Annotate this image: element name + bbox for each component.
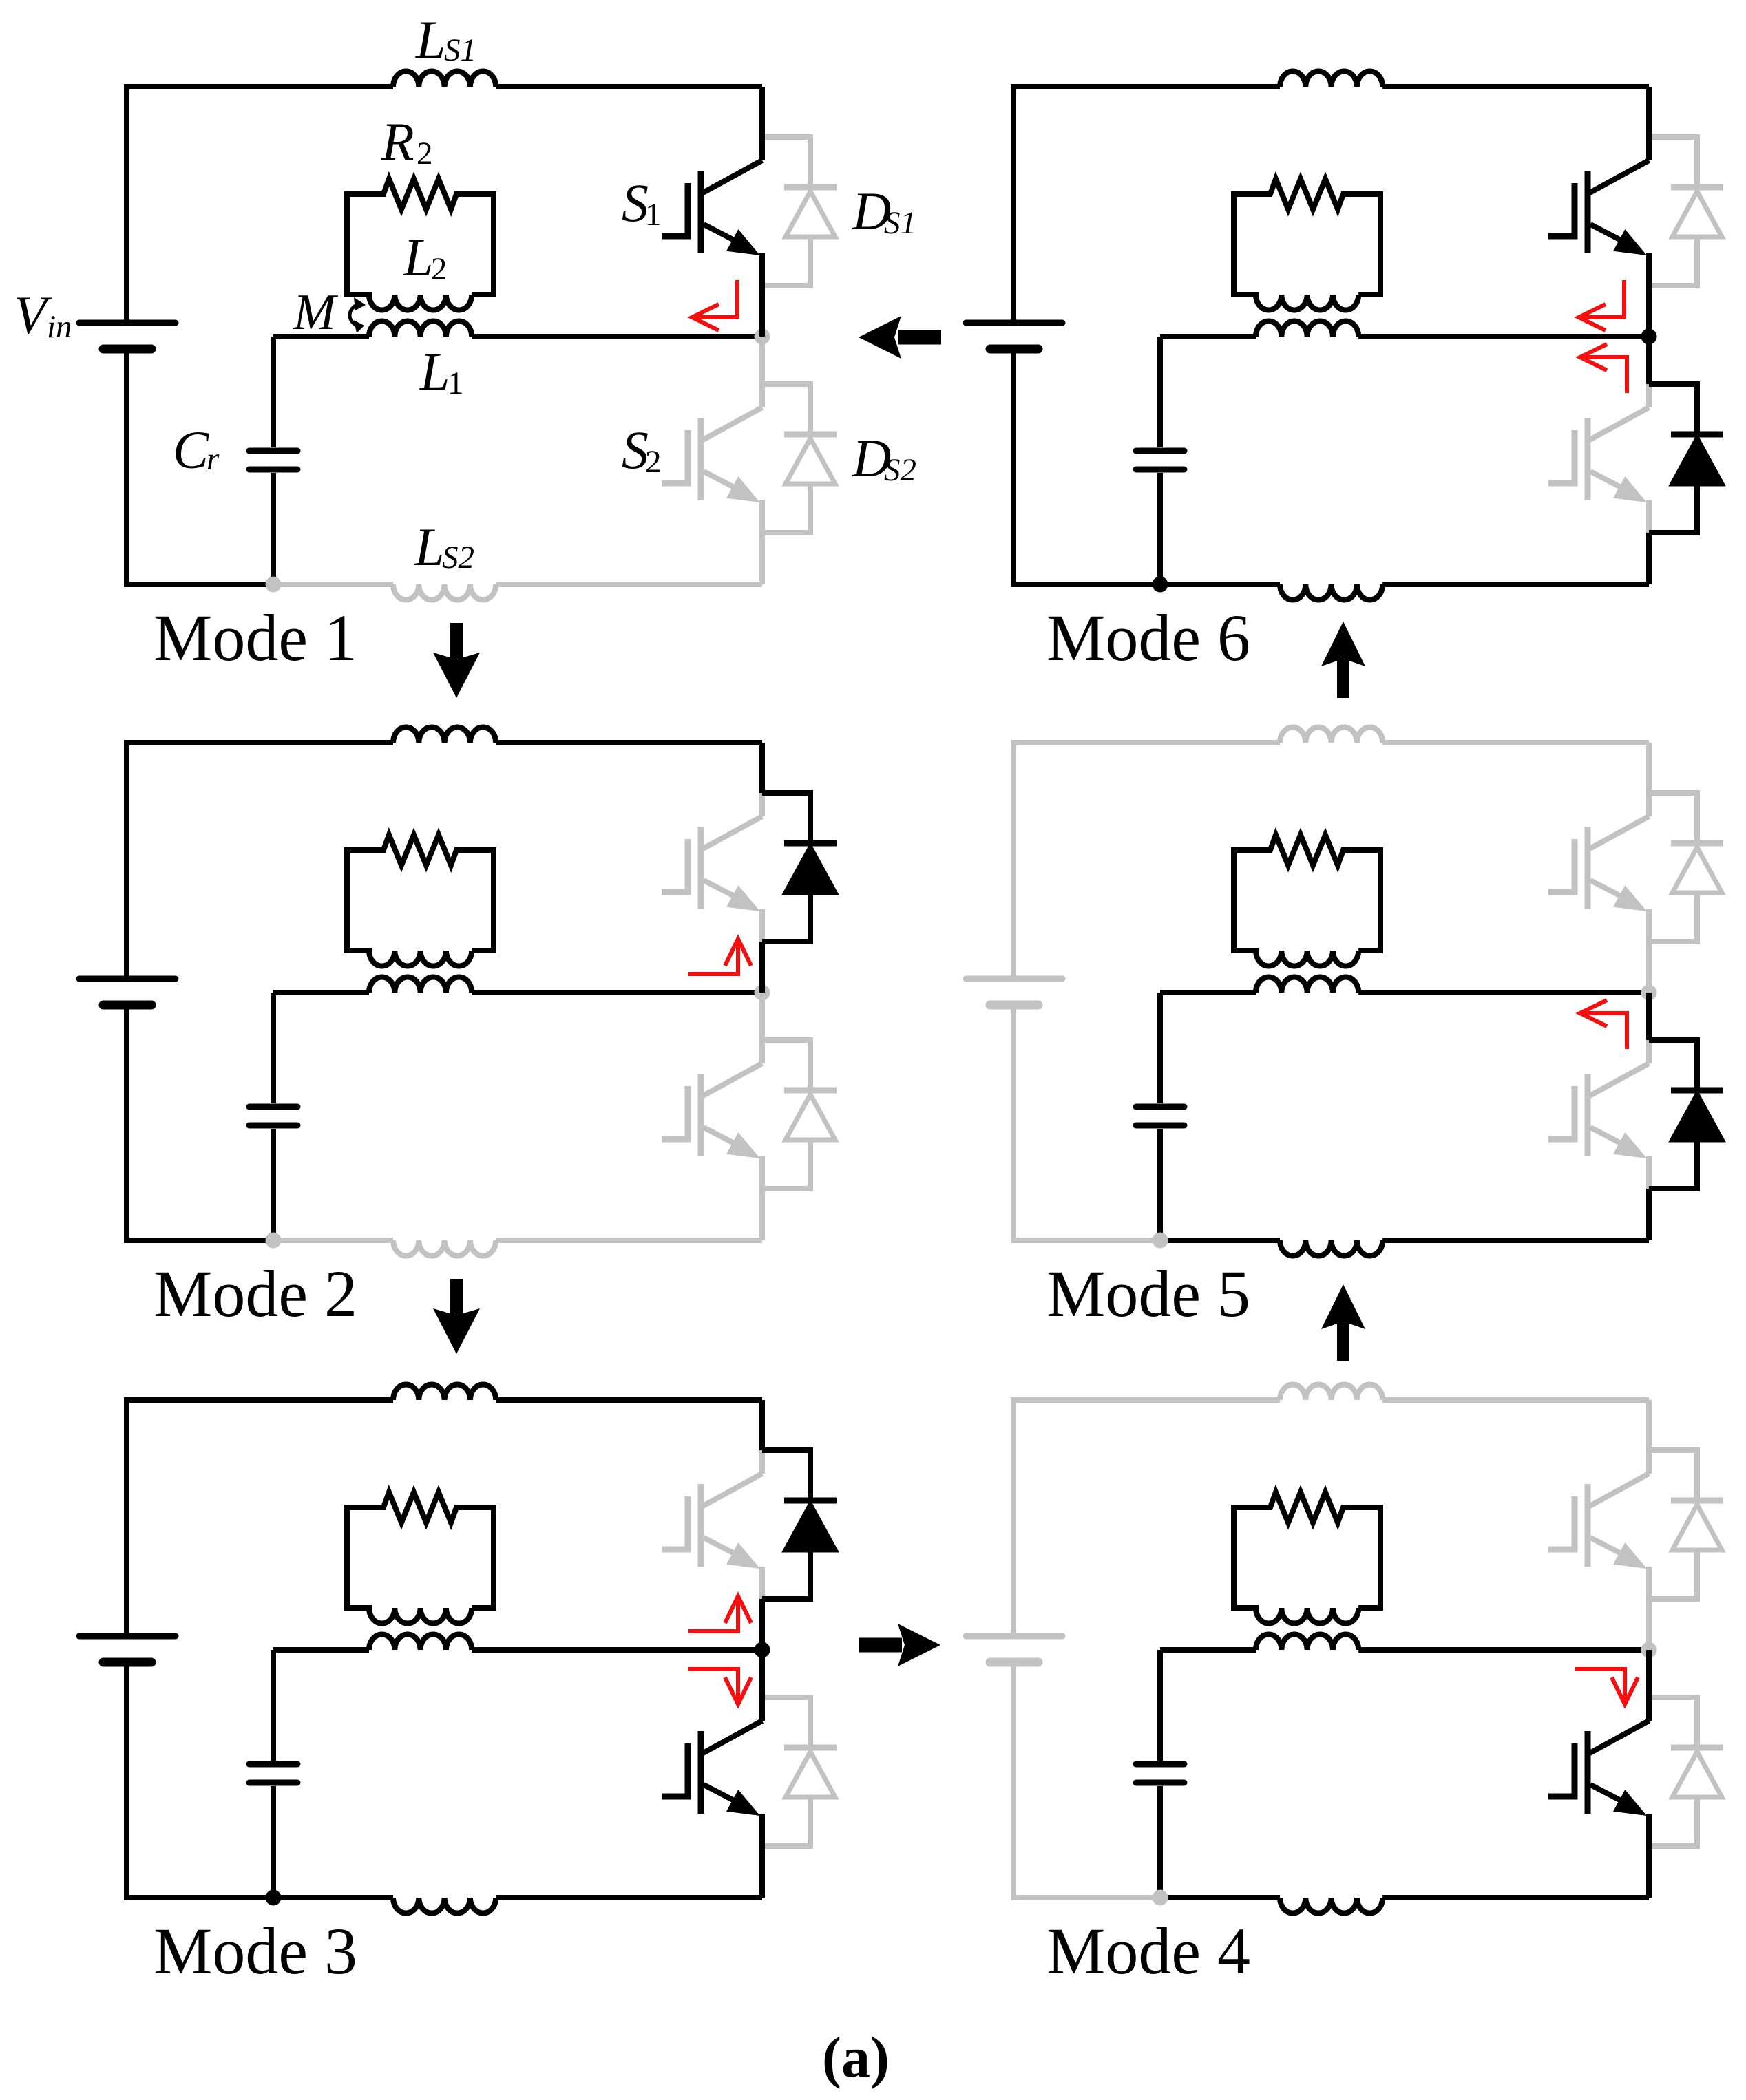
inductor L2: [347, 1505, 494, 1624]
inductor L2: [1234, 191, 1380, 310]
label LS1: [415, 10, 476, 70]
transistor S1: [662, 1400, 762, 1650]
wire middle: [273, 334, 369, 339]
label Mode 5: [1046, 1257, 1250, 1330]
diode DS2: [1649, 384, 1723, 533]
wire: [1382, 1397, 1649, 1403]
battery Vin: [79, 323, 176, 349]
svg-text:S1: S1: [884, 205, 916, 241]
diode DS2: [762, 384, 837, 533]
wire top: [1011, 740, 1280, 745]
label S1: [622, 173, 662, 233]
inductor L1: [369, 1634, 472, 1650]
flow arrow Mode4 to Mode5: [1321, 1284, 1365, 1361]
wire: [1646, 337, 1652, 384]
wire top: [1011, 84, 1280, 89]
wire top: [1011, 1397, 1280, 1403]
resistor R2: [1234, 835, 1380, 865]
current arrow (C): [688, 939, 751, 974]
wire: [759, 1599, 765, 1650]
inductor L1: [1256, 1634, 1358, 1650]
node: switch midpoint: [1641, 985, 1657, 1001]
diode DS1: [762, 1450, 837, 1599]
inductor LS1: [393, 71, 496, 87]
current arrow (C): [688, 1596, 751, 1631]
inductor L2: [1234, 1505, 1380, 1624]
wire: [496, 1238, 762, 1243]
diode DS1: [1649, 793, 1723, 942]
node: switch midpoint: [755, 985, 770, 1001]
wire top: [124, 740, 393, 745]
label DS1: [852, 181, 916, 241]
inductor L2: [347, 191, 494, 310]
wire: [1382, 1895, 1649, 1900]
wire: [1382, 740, 1649, 745]
wire middle: [273, 1647, 369, 1653]
node: Cr bottom junction: [1153, 1890, 1168, 1906]
svg-text:1: 1: [448, 365, 464, 401]
wire: [496, 582, 762, 587]
node: Cr bottom junction: [266, 577, 282, 593]
flow arrow Mode2 to Mode3: [433, 1279, 480, 1354]
current arrow (D): [688, 1669, 751, 1704]
label LS2: [414, 517, 474, 577]
label L2: [403, 227, 448, 287]
resistor R2: [347, 835, 494, 865]
transistor S2: [1548, 1650, 1649, 1898]
label (a): [822, 2026, 890, 2090]
label Mode 2: [154, 1257, 357, 1330]
svg-text:C: C: [173, 420, 209, 480]
transistor S2: [662, 993, 762, 1240]
svg-text:Mode 4: Mode 4: [1046, 1914, 1250, 1988]
wire left: [124, 87, 129, 587]
wire: [1358, 1647, 1649, 1653]
label R2: [381, 112, 433, 171]
wire: [1358, 334, 1649, 339]
current arrow (A): [1579, 280, 1624, 330]
wire bottom-left: [1013, 1895, 1160, 1900]
diode DS1: [762, 793, 837, 942]
svg-text:L: L: [415, 10, 445, 70]
transistor S1: [662, 87, 762, 337]
node: switch midpoint: [1641, 1642, 1657, 1658]
svg-text:2: 2: [431, 251, 448, 287]
wire left: [1011, 87, 1016, 587]
battery Vin: [79, 1636, 176, 1662]
svg-text:L: L: [403, 227, 433, 287]
transistor S2: [1548, 993, 1649, 1240]
wire: [1646, 533, 1652, 584]
svg-text:in: in: [47, 309, 72, 345]
resistor R2: [1234, 179, 1380, 209]
battery Vin: [966, 1636, 1062, 1662]
capacitor Cr: [1136, 1650, 1184, 1898]
label Cr: [173, 420, 220, 480]
diode DS2: [1649, 1697, 1723, 1846]
wire bottom-right: [1160, 1895, 1280, 1900]
wire middle: [1160, 334, 1256, 339]
wire: [472, 334, 762, 339]
inductor L2: [1234, 847, 1380, 966]
mutual coupling M arc: [350, 297, 366, 333]
svg-text:Mode 6: Mode 6: [1046, 601, 1250, 675]
transistor S1: [662, 743, 762, 993]
svg-text:Mode 5: Mode 5: [1046, 1257, 1250, 1330]
inductor L1: [369, 321, 472, 337]
diode DS2: [1649, 1040, 1723, 1189]
capacitor Cr: [1136, 993, 1184, 1240]
inductor LS2: [393, 1898, 496, 1913]
capacitor Cr: [249, 337, 297, 584]
wire: [1358, 990, 1649, 995]
svg-text:2: 2: [645, 444, 662, 480]
inductor LS2: [1280, 1898, 1382, 1913]
inductor LS1: [393, 727, 496, 743]
svg-text:2: 2: [417, 136, 433, 171]
wire: [759, 942, 765, 993]
node: switch midpoint: [755, 1642, 770, 1658]
battery Vin: [966, 323, 1062, 349]
wire: [1646, 1189, 1652, 1240]
node: switch midpoint: [755, 329, 770, 345]
current arrow (D): [1575, 1669, 1638, 1704]
capacitor Cr: [249, 993, 297, 1240]
node: Cr bottom junction: [266, 1890, 282, 1906]
wire middle: [1160, 1647, 1256, 1653]
flow arrow Mode5 to Mode6: [1321, 622, 1365, 698]
inductor L1: [1256, 321, 1358, 337]
current arrow (A): [692, 280, 737, 330]
node: switch midpoint: [1641, 329, 1657, 345]
inductor LS2: [1280, 1240, 1382, 1256]
wire: [496, 1397, 762, 1403]
diode DS2: [762, 1697, 837, 1846]
wire bottom-left: [1013, 1238, 1160, 1243]
wire bottom-right: [1160, 1238, 1280, 1243]
transistor S1: [1548, 87, 1649, 337]
svg-text:S2: S2: [884, 452, 916, 488]
inductor LS2: [393, 1240, 496, 1256]
svg-text:(a): (a): [822, 2026, 890, 2090]
current arrow (B): [1580, 1000, 1627, 1049]
inductor LS2: [393, 584, 496, 600]
diode DS2: [762, 1040, 837, 1189]
wire: [472, 1647, 762, 1653]
inductor LS1: [1280, 71, 1382, 87]
wire: [1382, 582, 1649, 587]
transistor S2: [1548, 337, 1649, 584]
battery Vin: [79, 979, 176, 1005]
resistor R2: [1234, 1492, 1380, 1523]
current arrow (B): [1580, 344, 1627, 393]
inductor LS1: [393, 1384, 496, 1400]
wire: [472, 990, 762, 995]
svg-text:L: L: [414, 517, 444, 577]
label S2: [622, 420, 662, 480]
wire bottom-right: [273, 1895, 393, 1900]
svg-text:M: M: [293, 284, 339, 341]
node: Cr bottom junction: [266, 1233, 282, 1249]
label Mode 4: [1046, 1914, 1250, 1988]
wire bottom-left: [1013, 582, 1160, 587]
svg-text:1: 1: [645, 197, 662, 233]
label Mode 3: [154, 1914, 357, 1988]
wire: [1646, 993, 1652, 1040]
wire left: [124, 743, 129, 1243]
svg-text:Mode 3: Mode 3: [154, 1914, 357, 1988]
wire bottom-left: [127, 1895, 273, 1900]
inductor L1: [1256, 977, 1358, 993]
wire: [759, 743, 765, 793]
diode DS1: [762, 137, 837, 286]
transistor S1: [1548, 743, 1649, 993]
label Mode 1: [154, 601, 357, 675]
label Vin: [14, 285, 72, 345]
label M: [293, 284, 339, 341]
capacitor Cr: [249, 1650, 297, 1898]
wire bottom-right: [273, 582, 393, 587]
wire bottom-right: [1160, 582, 1280, 587]
transistor S1: [1548, 1400, 1649, 1650]
label Mode 6: [1046, 601, 1250, 675]
wire: [496, 1895, 762, 1900]
capacitor Cr: [1136, 337, 1184, 584]
inductor L1: [369, 977, 472, 993]
svg-text:r: r: [207, 441, 220, 477]
flow arrow Mode6 to Mode1: [859, 316, 941, 359]
svg-text:S2: S2: [442, 540, 474, 575]
wire: [1382, 1238, 1649, 1243]
wire left: [1011, 1400, 1016, 1900]
svg-text:Mode 2: Mode 2: [154, 1257, 357, 1330]
wire top: [124, 84, 393, 89]
diode DS1: [1649, 1450, 1723, 1599]
battery Vin: [966, 979, 1062, 1005]
wire bottom-left: [127, 582, 273, 587]
wire top: [124, 1397, 393, 1403]
wire: [759, 1400, 765, 1450]
inductor LS1: [1280, 1384, 1382, 1400]
wire middle: [1160, 990, 1256, 995]
wire left: [124, 1400, 129, 1900]
svg-text:L: L: [419, 341, 450, 401]
inductor L2: [347, 847, 494, 966]
inductor LS2: [1280, 584, 1382, 600]
resistor R2: [347, 1492, 494, 1523]
label DS2: [852, 428, 916, 488]
wire bottom-right: [273, 1238, 393, 1243]
transistor S2: [662, 1650, 762, 1898]
node: Cr bottom junction: [1153, 1233, 1168, 1249]
wire bottom-left: [127, 1238, 273, 1243]
flow arrow Mode1 to Mode2: [433, 623, 480, 698]
inductor LS1: [1280, 727, 1382, 743]
wire left: [1011, 743, 1016, 1243]
diode DS1: [1649, 137, 1723, 286]
svg-text:R: R: [381, 112, 414, 171]
resistor R2: [347, 179, 494, 209]
transistor S2: [662, 337, 762, 584]
wire: [496, 84, 762, 89]
wire: [496, 740, 762, 745]
node: Cr bottom junction: [1153, 577, 1168, 593]
svg-text:S1: S1: [444, 32, 476, 68]
flow arrow Mode3 to Mode4: [859, 1624, 940, 1666]
wire middle: [273, 990, 369, 995]
svg-text:Mode 1: Mode 1: [154, 601, 357, 675]
wire: [1382, 84, 1649, 89]
label L1: [419, 341, 464, 401]
